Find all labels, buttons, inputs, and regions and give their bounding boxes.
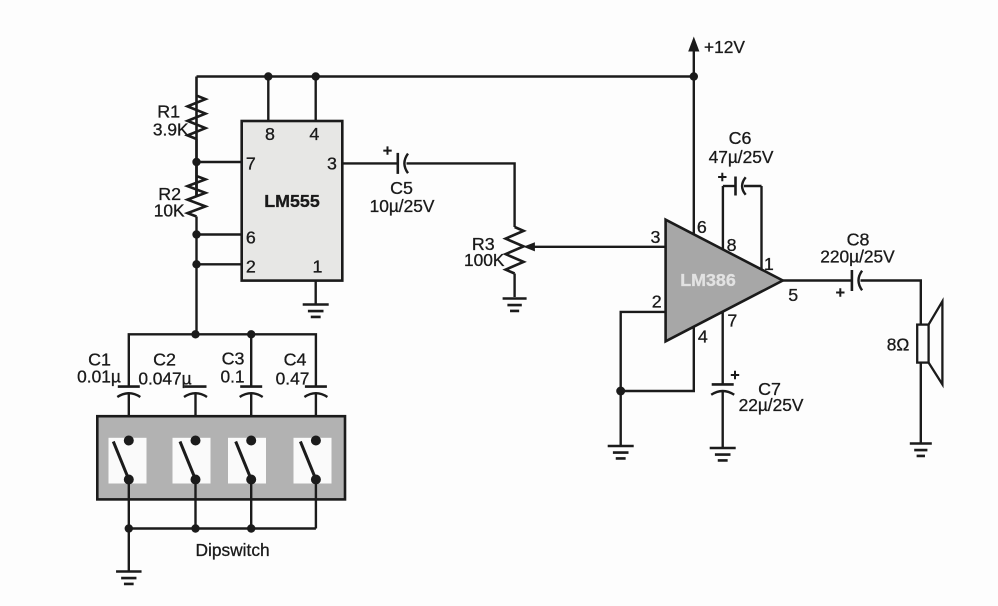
capacitor C3 0.1	[240, 387, 263, 397]
LM386 pin 3 label	[651, 227, 661, 247]
label 10u/25V	[370, 196, 435, 216]
label C1	[88, 350, 111, 370]
svg-text:0.01µ: 0.01µ	[77, 367, 121, 387]
power +12V arrow symbol	[688, 37, 745, 77]
label 8 ohm	[887, 335, 910, 355]
LM555 pin 7 label	[246, 154, 256, 174]
svg-text:100K: 100K	[464, 250, 505, 270]
svg-text:8: 8	[265, 124, 275, 144]
wire bus stub C3	[250, 334, 252, 386]
wire LM555 pin 1 to ground	[315, 281, 317, 304]
node junction on rail (pin 8 drop)	[264, 72, 272, 80]
svg-text:0.47: 0.47	[276, 369, 310, 389]
dipswitch switch 2 window	[173, 438, 211, 484]
svg-text:220µ/25V: 220µ/25V	[820, 247, 895, 267]
dipswitch switch 4 window	[294, 438, 332, 484]
wire bottom bus to ground	[128, 529, 130, 571]
wire C8 to speaker	[861, 281, 921, 325]
label R2	[158, 184, 181, 204]
svg-text:+12V: +12V	[704, 37, 745, 57]
ground at dipswitch	[116, 572, 142, 584]
svg-text:7: 7	[727, 311, 737, 331]
wire speaker to ground	[920, 363, 922, 443]
label 47u/25V	[709, 147, 774, 167]
LM555 pin 6 label	[246, 228, 256, 248]
svg-text:7: 7	[246, 154, 256, 174]
wire rail to LM555 pin 8	[267, 77, 269, 122]
speaker LS1 8 ohm	[917, 301, 942, 384]
wire node to ground	[620, 391, 622, 445]
LM386 pin 7 label	[727, 311, 737, 331]
wire node to LM555 pin 6	[197, 233, 242, 235]
wire switch 3 to bottom bus	[250, 480, 252, 529]
svg-text:C6: C6	[729, 128, 752, 148]
svg-text:Dipswitch: Dipswitch	[196, 540, 270, 560]
svg-text:C2: C2	[153, 350, 176, 370]
LM386 pin 8 label	[727, 235, 737, 255]
LM555 pin 1 label	[313, 257, 323, 277]
dipswitch switch 1 window	[109, 438, 147, 484]
label R1	[157, 102, 180, 122]
label C4 value	[276, 369, 310, 389]
node junction bus C2	[191, 330, 199, 338]
wire switch 1 to bottom bus	[128, 480, 130, 529]
wire C3 to switch	[250, 393, 252, 441]
svg-text:R1: R1	[157, 102, 180, 122]
capacitor C1 0.01u	[117, 387, 140, 397]
label 22u/25V	[739, 395, 804, 415]
capacitor C8 220u/25V	[836, 270, 862, 297]
label C8	[847, 230, 870, 250]
svg-text:6: 6	[246, 228, 256, 248]
svg-text:2: 2	[652, 292, 662, 312]
capacitor C6 47u/25V	[718, 173, 761, 196]
label 10K	[154, 201, 185, 221]
svg-text:8Ω: 8Ω	[887, 335, 910, 355]
label Dipswitch	[196, 540, 270, 560]
svg-text:3.9K: 3.9K	[153, 120, 189, 140]
wire LM555 pin 3 to C5	[342, 162, 398, 164]
IC U1 LM555 body	[242, 121, 343, 281]
switch S1-1 contacts and lever	[113, 436, 134, 485]
svg-text:10µ/25V: 10µ/25V	[370, 196, 435, 216]
svg-text:0.047µ: 0.047µ	[138, 369, 191, 389]
wire C2 to switch	[194, 393, 196, 441]
label C2 value	[138, 369, 191, 389]
svg-text:4: 4	[309, 124, 319, 144]
svg-text:C4: C4	[284, 350, 307, 370]
label C1 value	[77, 367, 121, 387]
node junction pin 2	[192, 260, 200, 268]
node junction pin2/pin4 ground	[616, 387, 625, 396]
LM386 pin 4 label	[698, 327, 708, 347]
node junction bottom bus 2	[191, 524, 199, 532]
wire node to LM555 pin 2	[197, 263, 242, 265]
wire LM386 pin 8 to C6	[722, 186, 724, 250]
svg-text:47µ/25V: 47µ/25V	[709, 147, 774, 167]
wire switch 4 to bottom bus	[315, 480, 317, 529]
wire +12V to LM386 pin 6	[693, 77, 695, 235]
capacitor C4 0.47	[304, 387, 327, 397]
wire LM386 pin 1 to C6	[760, 186, 762, 270]
LM386 pin 1 label	[764, 254, 774, 274]
label C6	[729, 128, 752, 148]
svg-text:C3: C3	[222, 349, 245, 369]
node junction pin 6	[192, 230, 200, 238]
label C5	[390, 178, 413, 198]
wire LM386 pin 7 to C7	[722, 312, 724, 385]
svg-text:3: 3	[651, 227, 661, 247]
ground at R3	[503, 299, 527, 311]
LM555 pin 8 label	[265, 124, 275, 144]
svg-text:4: 4	[698, 327, 708, 347]
ground at speaker	[910, 444, 932, 456]
svg-text:1: 1	[764, 254, 774, 274]
svg-text:3: 3	[327, 154, 337, 174]
ground at C7	[710, 448, 736, 460]
svg-text:10K: 10K	[154, 201, 185, 221]
LM386 pin 6 label	[697, 217, 707, 237]
svg-text:C5: C5	[390, 178, 413, 198]
wire capacitor bank top bus	[129, 334, 316, 386]
node junction bottom bus 3	[247, 524, 255, 532]
label 3.9K	[153, 120, 189, 140]
svg-text:5: 5	[788, 285, 798, 305]
label R3	[472, 234, 495, 254]
wire +12V top rail	[197, 75, 694, 77]
svg-text:8: 8	[727, 235, 737, 255]
LM386 pin 5 label	[788, 285, 798, 305]
label C3 value	[220, 367, 244, 387]
resistor R3 100K potentiometer	[506, 227, 524, 297]
wire LM386 pin 2 to node	[621, 312, 666, 391]
wire dipswitch bottom bus	[129, 527, 316, 529]
switch S1-3 contacts and lever	[236, 436, 257, 485]
ground at LM386 pins 2/4	[608, 446, 634, 458]
LM386 pin 2 label	[652, 292, 662, 312]
capacitor C5 10u/25V	[383, 146, 408, 174]
wire switch 2 to bottom bus	[194, 480, 196, 529]
wire C1 to switch	[128, 393, 130, 441]
wire C4 to switch	[315, 393, 317, 441]
label C2	[153, 350, 176, 370]
LM555 pin 3 label	[327, 154, 337, 174]
capacitor C7 22u/25V	[711, 371, 739, 395]
capacitor C2 0.047u	[184, 387, 207, 397]
dipswitch S1 body	[97, 416, 345, 499]
wire R3 wiper to LM386 pin 3 (arrow)	[523, 242, 665, 251]
svg-text:2: 2	[246, 257, 256, 277]
svg-text:6: 6	[697, 217, 707, 237]
LM555 pin 4 label	[309, 124, 319, 144]
svg-text:LM555: LM555	[264, 191, 320, 211]
label 220u/25V	[820, 247, 895, 267]
svg-text:LM386: LM386	[680, 270, 736, 290]
svg-text:1: 1	[313, 257, 323, 277]
svg-text:22µ/25V: 22µ/25V	[739, 395, 804, 415]
label C3	[222, 349, 245, 369]
node junction on rail (pin 4 drop)	[312, 72, 320, 80]
wire LM386 pin 5 to C8	[783, 279, 852, 281]
label 100K	[464, 250, 505, 270]
svg-text:0.1: 0.1	[220, 367, 244, 387]
resistor R1 3.9K	[188, 77, 206, 197]
wire LM386 pin 4 to node	[621, 327, 694, 391]
op-amp U2 LM386 body	[666, 220, 783, 342]
ground at LM555 pin 1	[303, 305, 329, 317]
node junction bottom bus 1	[125, 524, 133, 532]
wire C5 to R3 top	[407, 163, 515, 227]
dipswitch switch 3 window	[228, 438, 266, 484]
resistor R2 10K	[188, 162, 206, 334]
wire node to LM555 pin 7	[197, 161, 242, 163]
node junction on rail (+12V / pin 6)	[690, 72, 698, 80]
switch S1-2 contacts and lever	[180, 436, 201, 485]
wire rail to LM555 pin 4	[315, 77, 317, 122]
label C4	[284, 350, 307, 370]
node junction bus C3	[247, 330, 255, 338]
LM555 pin 2 label	[246, 257, 256, 277]
wire C7 to ground	[722, 392, 724, 448]
node junction R1/R2/pin7	[192, 158, 200, 166]
switch S1-4 contacts and lever	[300, 436, 321, 485]
label C7	[758, 379, 781, 399]
